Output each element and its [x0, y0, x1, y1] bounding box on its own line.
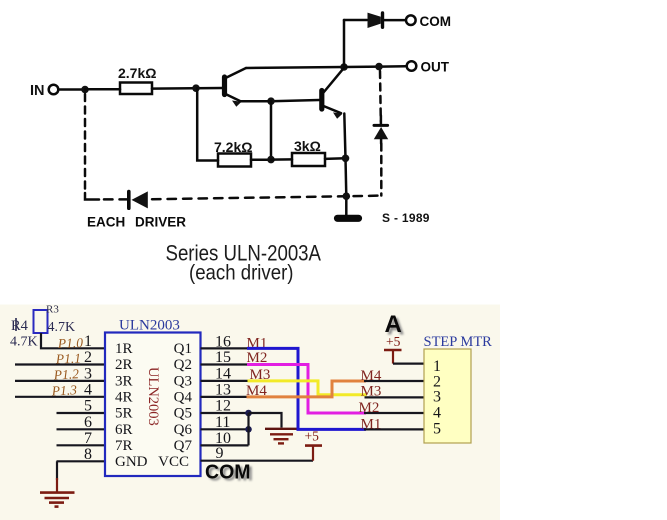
svg-text:4: 4: [433, 405, 441, 422]
wire M3 yellow: [248, 381, 367, 395]
wire dashed from OUT node down to zener: [379, 71, 382, 121]
wire Q2 emitter down: [344, 114, 346, 216]
node COM label: [420, 14, 452, 29]
wire pin7 row: [57, 444, 106, 446]
wire R1 to Q1 base: [152, 87, 222, 90]
svg-text:GND: GND: [115, 454, 148, 470]
svg-text:+5: +5: [386, 334, 401, 349]
svg-text:ULN2003: ULN2003: [145, 367, 161, 426]
wire node B down to R2: [197, 88, 218, 160]
svg-text:IN: IN: [30, 83, 45, 99]
wire M2 magenta: [247, 365, 366, 414]
svg-text:OUT: OUT: [421, 59, 450, 74]
wire Q1 emitter to Q2 base: [241, 100, 272, 103]
svg-text:Q7: Q7: [174, 438, 193, 454]
svg-text:3R: 3R: [115, 373, 133, 389]
wire pin14 stub: [201, 380, 248, 382]
svg-text:7R: 7R: [115, 438, 133, 454]
transistor Q1 emitter arrow: [232, 101, 242, 107]
wire pin10 stub: [201, 444, 249, 446]
svg-text:COM: COM: [205, 461, 251, 484]
resistor R3 value 3kOhm: [294, 138, 321, 154]
svg-text:(each driver): (each driver): [189, 262, 294, 285]
node H junction bottom rail: [343, 192, 351, 200]
transistor Q1 emitter: [226, 94, 241, 101]
svg-text:5: 5: [433, 421, 441, 438]
resistor R2 7.2k body: [218, 154, 251, 167]
wire R3 to pin1 row: [41, 333, 105, 348]
wire node F to R3: [271, 158, 292, 161]
node E junction emitter1: [267, 97, 275, 105]
wire connector pin2 stub: [364, 380, 424, 382]
power +5 bar (COM area): [305, 444, 322, 447]
svg-text:M2: M2: [359, 400, 380, 416]
svg-text:Q5: Q5: [174, 406, 192, 422]
svg-text:4: 4: [84, 382, 92, 399]
svg-text:P1.2: P1.2: [52, 366, 79, 382]
svg-text:Q3: Q3: [174, 373, 192, 389]
svg-text:ULN2003: ULN2003: [119, 318, 180, 334]
svg-text:1R: 1R: [115, 341, 133, 357]
OUT terminal circle: [407, 61, 417, 71]
svg-text:3kΩ: 3kΩ: [294, 138, 321, 154]
node G junction: [342, 155, 350, 163]
svg-text:2R: 2R: [115, 357, 133, 373]
svg-text:5R: 5R: [115, 406, 133, 422]
svg-text:P1.0: P1.0: [57, 335, 84, 351]
resistor R1 value 2.7kOhm: [118, 65, 156, 81]
svg-text:STEP MTR: STEP MTR: [424, 334, 493, 350]
wire pin2 row: [15, 363, 105, 365]
wire dashed zener down to bottom rail: [380, 144, 383, 196]
ground G2 bars: [265, 429, 297, 444]
wire node A to R1: [85, 88, 120, 91]
svg-text:COM: COM: [420, 14, 452, 29]
junction pin12: [245, 410, 252, 417]
resistor R3 (4.7K) body blue: [34, 310, 48, 333]
junction pin11: [245, 426, 252, 433]
svg-text:R4: R4: [11, 318, 29, 334]
wire R3 to node G: [325, 157, 346, 160]
transistor Q2 base bar: [319, 91, 324, 110]
svg-text:R3: R3: [46, 304, 59, 316]
svg-text:3: 3: [433, 389, 441, 406]
wire pin5 row: [57, 412, 106, 414]
wire connector pin3 stub: [365, 396, 425, 398]
svg-text:M4: M4: [361, 368, 382, 384]
resistor R2 value 7.2kOhm: [214, 139, 252, 155]
svg-text:VCC: VCC: [158, 454, 189, 470]
resistor R4 body edge line: [15, 318, 17, 331]
wire node E down to R2-R3 row: [270, 101, 273, 159]
svg-text:EACH: EACH: [87, 215, 125, 230]
wire pin4 row: [15, 396, 105, 398]
transistor Q2 collector: [324, 68, 345, 93]
svg-text:Q4: Q4: [174, 389, 193, 405]
svg-text:6: 6: [84, 414, 92, 431]
IN terminal circle: [49, 85, 59, 95]
wire junction bus vertical: [247, 413, 249, 445]
cream background of lower schematic screenshot: [0, 305, 500, 520]
diode D1 cathode bar: [381, 13, 384, 27]
wire pin12 to ground G2: [249, 413, 282, 428]
svg-text:M1: M1: [361, 416, 382, 432]
wire pin9 to +5: [201, 460, 314, 462]
wire COM branch up: [343, 20, 346, 67]
svg-text:Q2: Q2: [174, 357, 192, 373]
node OUT label: [421, 59, 450, 74]
diode D3 triangle pointing left: [132, 191, 148, 208]
node B junction: [192, 84, 200, 92]
transistor Q2 emitter: [324, 106, 342, 113]
wire pin16 stub: [201, 347, 248, 349]
wire pin11 stub: [201, 428, 249, 430]
wire IN to node A: [59, 88, 86, 91]
node IN label: [30, 83, 45, 99]
svg-text:P1.3: P1.3: [50, 382, 77, 398]
wire rail to OUT: [344, 65, 406, 68]
diode D3 cathode bar: [127, 192, 131, 209]
wire connector pin1: [393, 363, 424, 365]
wire D1 to COM terminal: [384, 19, 406, 22]
power +5 bar (connector): [384, 349, 402, 352]
resistor R3 3k body: [292, 153, 325, 166]
svg-text:4R: 4R: [115, 389, 133, 405]
wire pin13 stub: [201, 396, 247, 398]
svg-text:Q1: Q1: [174, 341, 192, 357]
svg-text:2.7kΩ: 2.7kΩ: [118, 65, 156, 81]
svg-text:5: 5: [84, 398, 92, 415]
svg-text:P1.1: P1.1: [55, 351, 82, 367]
power +5 stem (COM area): [312, 446, 314, 461]
wire M1 blue: [247, 348, 366, 429]
node F junction: [267, 156, 275, 164]
label S-1989: [382, 211, 430, 225]
IC U1 ULN2003 box: [105, 333, 201, 477]
node A junction: [81, 86, 89, 94]
svg-text:3: 3: [84, 366, 92, 383]
zener D2 cathode bar: [374, 124, 388, 127]
svg-text:7: 7: [84, 430, 92, 447]
power +5 stem (connector): [392, 350, 394, 364]
node C junction top rail: [340, 63, 348, 71]
wire pin12 stub: [201, 412, 249, 414]
svg-text:4.7K: 4.7K: [10, 335, 38, 350]
transistor Q2 base wire: [271, 100, 319, 101]
label EACH DRIVER: [87, 215, 186, 230]
zener D2 triangle: [374, 127, 388, 139]
ground top schematic: [338, 215, 359, 222]
svg-text:8: 8: [84, 446, 92, 463]
svg-text:9: 9: [216, 445, 224, 462]
svg-text:Q6: Q6: [174, 422, 193, 438]
transistor Q2 emitter arrow: [333, 112, 343, 118]
svg-text:M3: M3: [361, 384, 382, 400]
diode D1 triangle: [368, 13, 381, 28]
svg-text:2: 2: [84, 349, 92, 366]
transistor Q1 collector: [226, 68, 246, 78]
svg-text:4.7K: 4.7K: [48, 320, 76, 335]
wire pin8 row: [57, 460, 106, 462]
wire top rail: [246, 67, 344, 68]
svg-text:+5: +5: [305, 429, 320, 444]
COM terminal circle: [406, 15, 416, 25]
wire dashed corner bottom left: [85, 193, 99, 200]
resistor R1 2.7k body: [120, 83, 152, 95]
svg-text:1: 1: [84, 333, 92, 350]
wire dashed node A down left side: [84, 94, 87, 193]
wire pin6 row: [57, 428, 106, 430]
svg-text:6R: 6R: [115, 422, 133, 438]
ground G1 bars: [40, 493, 75, 507]
wire R2 to node F: [251, 159, 271, 162]
wire connector pin4 stub: [364, 412, 424, 414]
wire pin8 down to ground: [56, 461, 58, 480]
wire ground stem maroon: [56, 478, 58, 492]
transistor Q1 base bar: [222, 77, 227, 95]
node D junction at OUT: [375, 63, 383, 71]
wire connector pin5 stub: [364, 428, 424, 430]
wire dashed bottom rail left of D3: [104, 198, 127, 201]
wire pin3 row: [15, 380, 105, 382]
svg-text:S - 1989: S - 1989: [382, 211, 430, 225]
wire to diode D1: [344, 19, 367, 22]
wire M4 orange: [247, 381, 367, 397]
svg-text:7.2kΩ: 7.2kΩ: [214, 139, 252, 155]
wire pin15 stub: [201, 363, 248, 365]
svg-text:DRIVER: DRIVER: [135, 215, 186, 230]
wire dashed bottom rail right of D3: [152, 196, 382, 200]
connector J1 box: [424, 349, 471, 443]
